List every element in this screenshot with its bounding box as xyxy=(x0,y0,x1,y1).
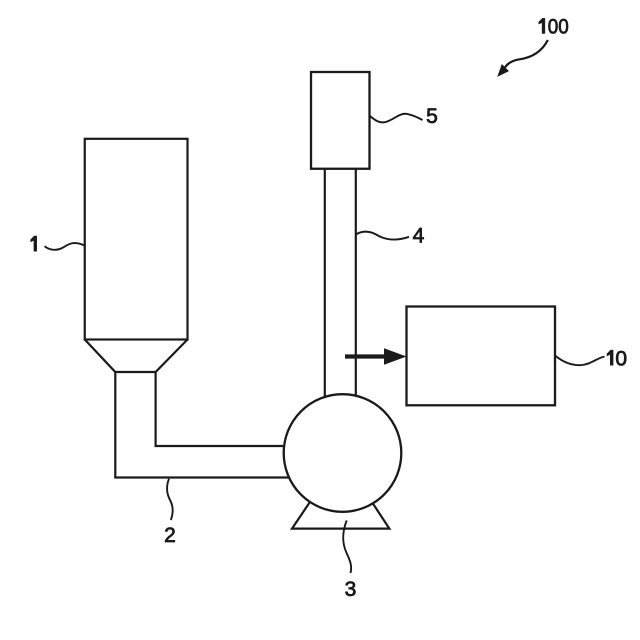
label 1 xyxy=(31,236,37,251)
leader line 10 xyxy=(555,356,605,366)
svg-text:2: 2 xyxy=(164,524,176,547)
leader line 4 xyxy=(356,232,409,240)
svg-text:3: 3 xyxy=(345,578,357,601)
label 100 digit 1 xyxy=(539,18,545,33)
wire pipe 4 right line xyxy=(355,165,357,460)
hopper 1 funnel xyxy=(85,340,188,373)
svg-text:5: 5 xyxy=(426,105,438,128)
leader line 3 xyxy=(343,521,351,574)
box 10 xyxy=(407,307,556,406)
hopper 1 body rectangle xyxy=(85,139,188,340)
reference arrow 100 curve xyxy=(504,40,548,70)
reference arrow 100 head xyxy=(498,65,508,75)
pump 3 circle xyxy=(284,394,402,512)
svg-text:4: 4 xyxy=(413,225,425,248)
wire pipe 2 inner (right/top) xyxy=(156,372,300,446)
label 10 digit 1 xyxy=(607,350,613,365)
thick flow arrow xyxy=(345,348,407,364)
box 5 xyxy=(311,72,370,169)
svg-text:0: 0 xyxy=(615,347,627,370)
pump base 3 trapezoid xyxy=(292,490,389,529)
wire pipe 4 left line xyxy=(324,165,326,460)
leader line 2 xyxy=(167,479,173,520)
svg-text:00: 00 xyxy=(548,16,569,39)
leader line 5 xyxy=(370,114,423,123)
leader line 1 xyxy=(45,243,85,250)
wire pipe 2 outer (left/bottom) xyxy=(115,372,300,478)
